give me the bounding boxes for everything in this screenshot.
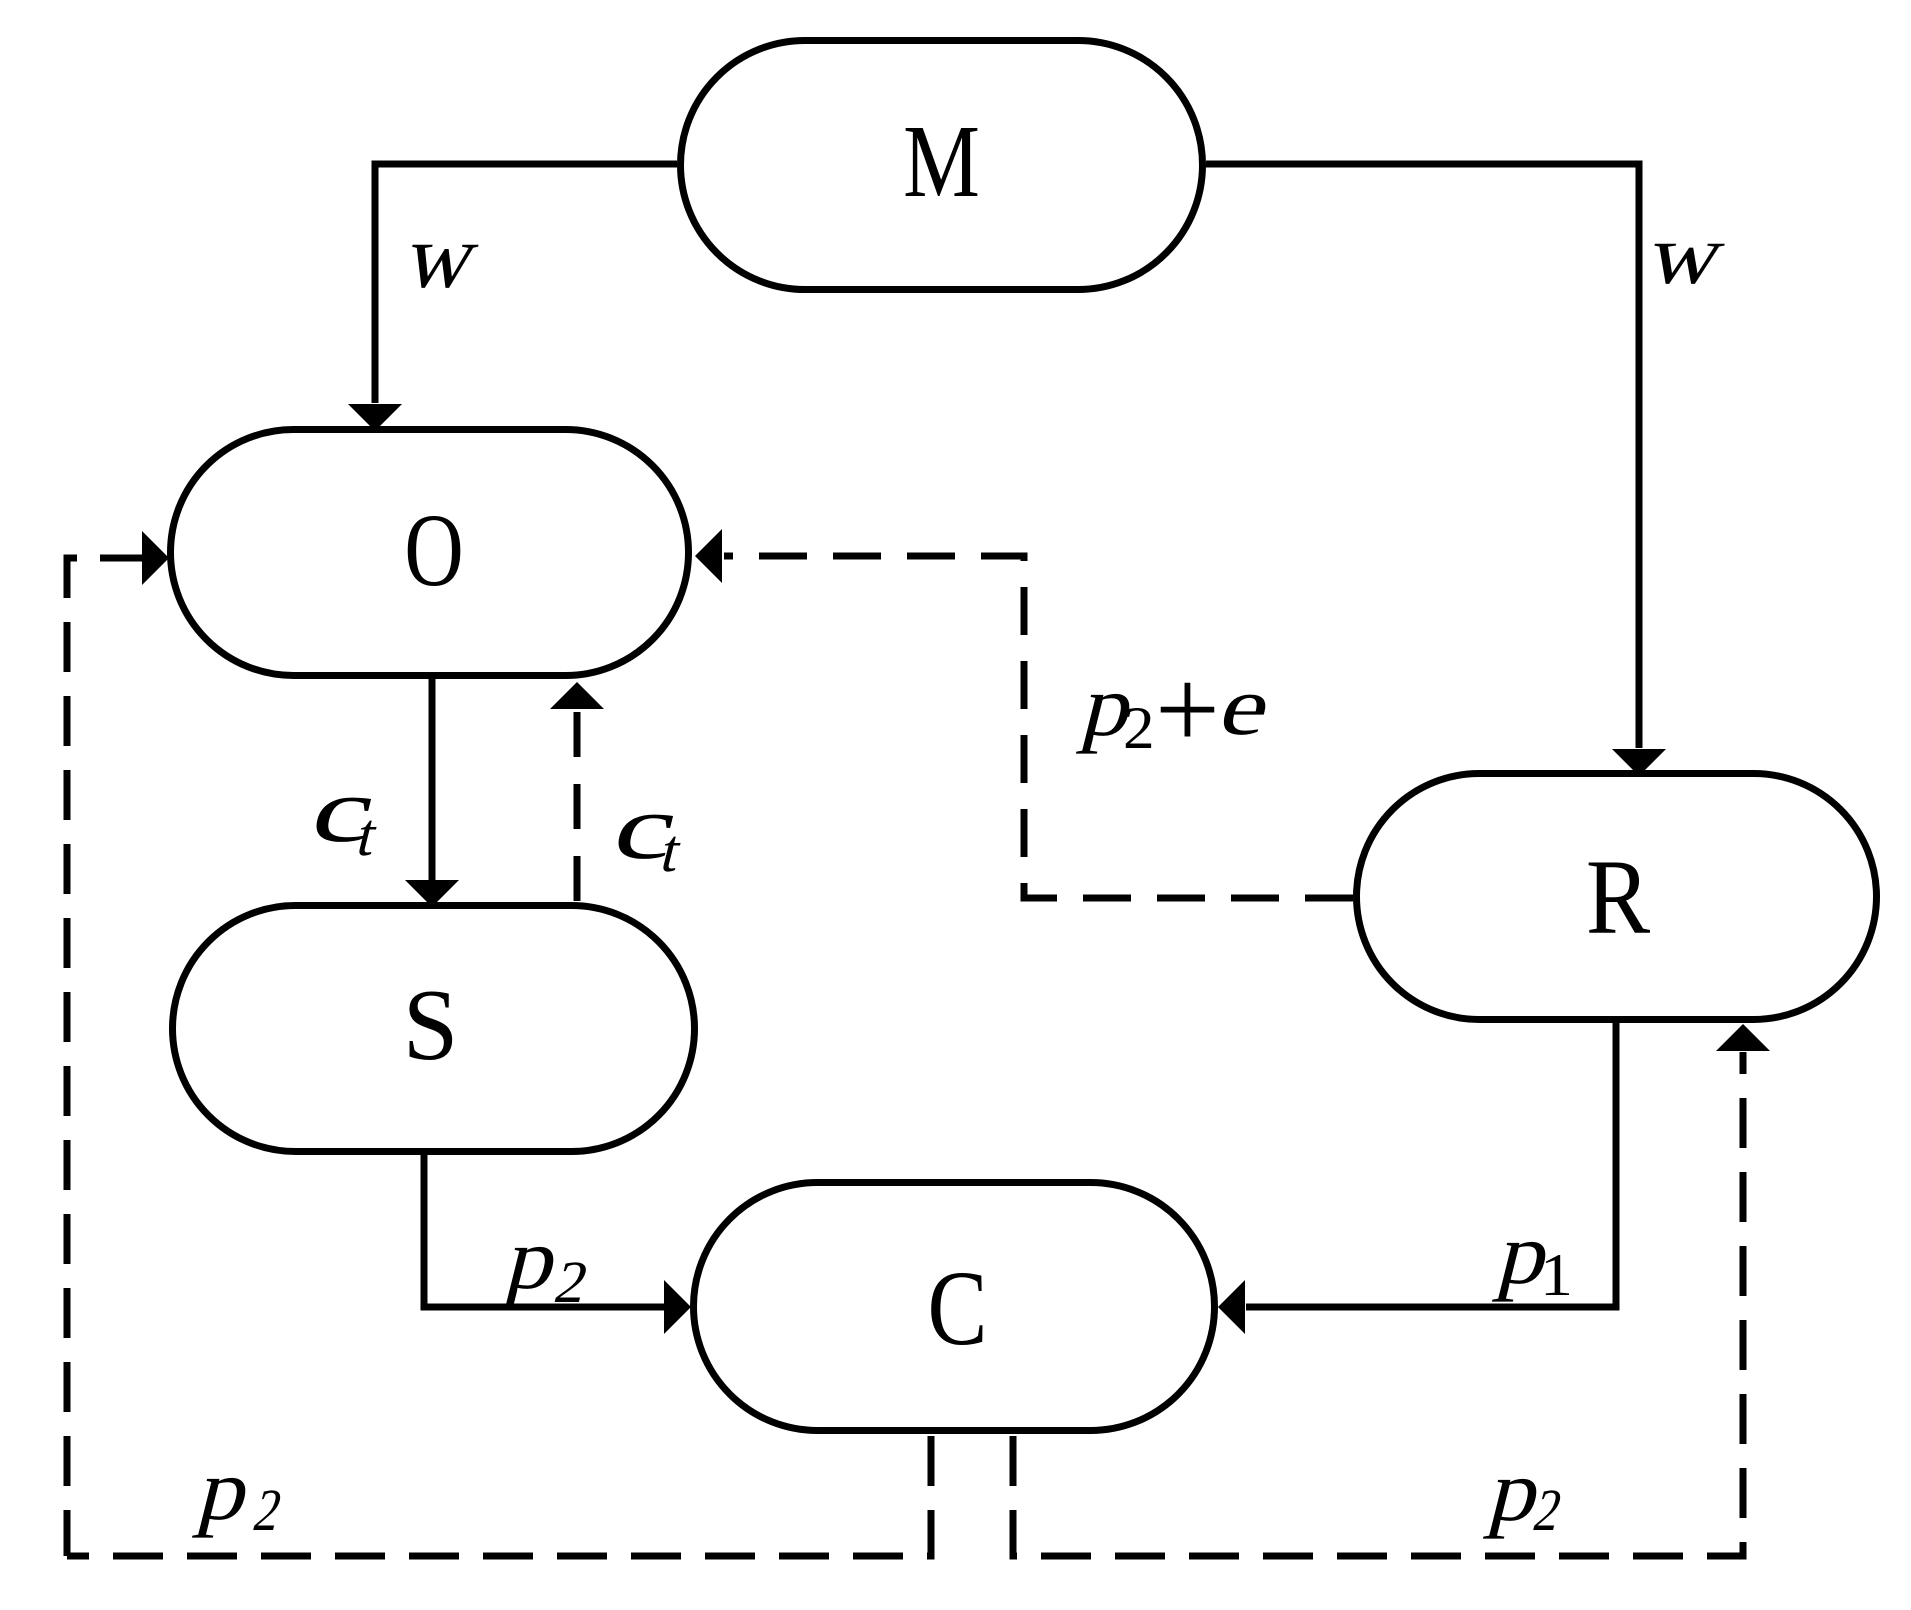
wire M to O <box>375 164 677 403</box>
wire S to C <box>424 1153 664 1307</box>
wire O to S <box>429 677 436 880</box>
svg-text:S: S <box>403 968 459 1081</box>
arrowhead into O left <box>142 531 169 585</box>
wire stub into O left <box>100 555 146 562</box>
dashed wire left feedback rise <box>67 558 77 1556</box>
arrowhead into S top <box>405 880 459 907</box>
arrowhead into O bottom <box>550 682 604 709</box>
svg-text:M: M <box>903 104 980 219</box>
dashed wire R to O <box>724 556 1353 898</box>
label p2+e <box>1074 646 1281 773</box>
svg-text:C: C <box>928 1250 988 1368</box>
node R <box>1357 774 1877 1020</box>
node C <box>694 1183 1215 1431</box>
label p1 <box>1490 1206 1573 1309</box>
arrowhead into R top <box>1612 749 1666 776</box>
node S <box>173 906 695 1152</box>
arrowhead into C right <box>1218 1280 1245 1334</box>
node O <box>171 430 689 676</box>
label p2 bottom right <box>1481 1443 1569 1544</box>
svg-text:O: O <box>404 493 463 608</box>
svg-text:1: 1 <box>1540 1241 1573 1308</box>
dashed wire C to R feedback right <box>1013 1052 1743 1556</box>
arrowhead into C left <box>664 1280 691 1334</box>
wire R to C <box>1246 1021 1616 1307</box>
arrowhead into O top <box>348 404 402 431</box>
arrowhead into O right <box>695 529 722 583</box>
svg-text:R: R <box>1586 838 1650 957</box>
arrowhead into R bottom <box>1716 1024 1770 1051</box>
dashed wire S to O <box>574 711 581 901</box>
wire M to R <box>1206 164 1639 748</box>
svg-text:+: + <box>1155 646 1220 773</box>
label p2 bottom left <box>190 1442 289 1544</box>
node M <box>681 41 1203 290</box>
svg-text:2: 2 <box>1123 695 1155 761</box>
label c_t right <box>604 777 689 885</box>
dashed wire C to O feedback left <box>67 1436 931 1556</box>
label c_t left <box>302 760 387 869</box>
label p2 mid <box>498 1211 595 1316</box>
